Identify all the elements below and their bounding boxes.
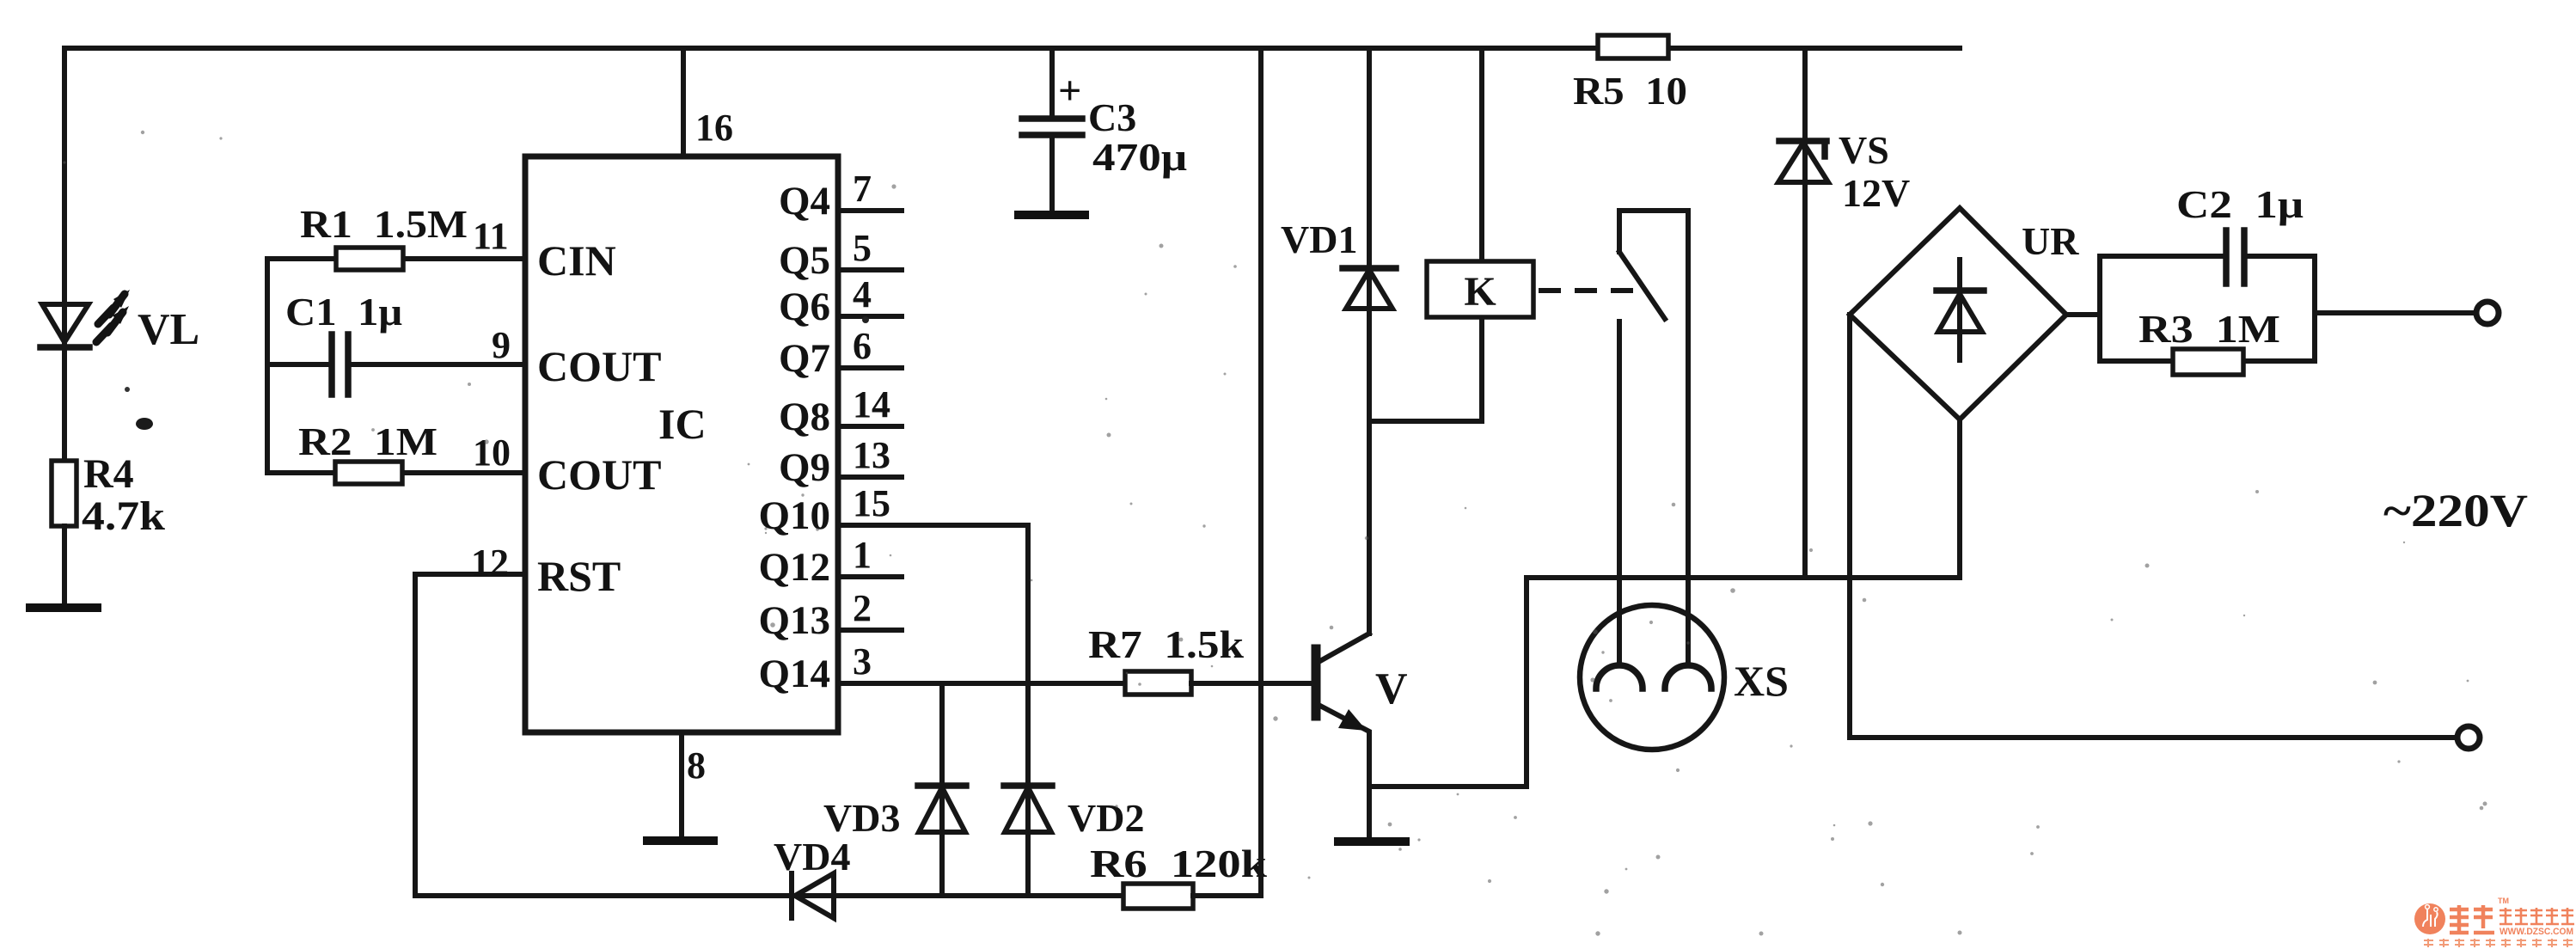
pin name Q9 — [779, 445, 830, 490]
pin 2 stub — [838, 587, 902, 630]
label R3 1M — [2139, 307, 2280, 351]
label R1 1.5M — [300, 202, 468, 246]
transistor V — [1316, 634, 1408, 838]
diode VD2 — [1004, 786, 1052, 832]
ground under transistor — [1338, 837, 1405, 846]
svg-text:VD1: VD1 — [1281, 217, 1357, 261]
label R2 1M — [298, 419, 437, 463]
svg-text:COUT: COUT — [537, 450, 661, 499]
svg-text:Q5: Q5 — [779, 238, 830, 283]
resistor R4 — [52, 461, 76, 526]
label C1 1u — [285, 290, 402, 334]
svg-text:11: 11 — [473, 215, 509, 257]
pin name Q4 — [779, 179, 830, 223]
wire R1 row — [267, 256, 525, 261]
label VS 12V — [1839, 128, 1910, 215]
svg-text:CIN: CIN — [537, 236, 616, 285]
pin 15 number — [853, 482, 890, 524]
svg-text:9: 9 — [492, 324, 511, 366]
label R4 4.7k — [82, 451, 165, 539]
svg-text:12: 12 — [471, 542, 509, 584]
pin number 9 — [492, 324, 511, 366]
diode VD3 — [918, 683, 966, 896]
pin name Q12 — [758, 545, 830, 590]
pin 8 wire — [682, 732, 706, 839]
svg-text:VS: VS — [1839, 128, 1889, 172]
svg-text:C2 1μ: C2 1μ — [2176, 182, 2304, 226]
pin 7 stub — [838, 168, 902, 211]
bridge rectifier UR — [1850, 208, 2066, 419]
wire VD4 to R6 — [795, 893, 1123, 898]
pin 6 stub — [838, 325, 902, 368]
svg-text:+: + — [1058, 68, 1081, 113]
svg-text:6: 6 — [853, 325, 872, 367]
svg-text:R5 10: R5 10 — [1573, 69, 1687, 113]
wire R2 row — [267, 470, 525, 475]
pin name Q6 — [779, 285, 830, 329]
svg-text:WWW.DZSC.COM: WWW.DZSC.COM — [2500, 927, 2573, 937]
wire C1 row — [267, 362, 525, 367]
svg-text:R1 1.5M: R1 1.5M — [300, 202, 468, 246]
svg-text:Q9: Q9 — [779, 445, 830, 490]
svg-text:UR: UR — [2022, 219, 2079, 263]
svg-text:RST: RST — [537, 552, 621, 600]
terminal bottom — [2457, 726, 2480, 749]
resistor R7 — [1125, 671, 1191, 695]
pin name RST — [537, 552, 621, 600]
svg-text:12V: 12V — [1842, 171, 1910, 215]
relay coil K wire — [1369, 48, 1482, 421]
svg-text:Q10: Q10 — [758, 493, 830, 538]
wire Q10 to VD2 — [838, 525, 1028, 896]
label VD4 — [774, 835, 850, 879]
svg-text:7: 7 — [853, 168, 872, 210]
watermark logo — [2414, 897, 2574, 947]
pin name CIN — [537, 236, 616, 285]
pin 4 stub — [838, 273, 902, 316]
LED VL — [40, 304, 89, 461]
wire RC box to terminal — [2315, 310, 2475, 315]
wire R7 to base — [1191, 681, 1313, 686]
label VD1 — [1281, 217, 1357, 261]
resistor R3 — [2173, 349, 2243, 375]
wire left vertical from rail to LED — [62, 48, 67, 304]
label ~220V — [2383, 485, 2528, 536]
wire bridge right to RC box — [2066, 312, 2100, 317]
wire emitter to XS branch — [1369, 578, 1527, 787]
svg-text:10: 10 — [473, 432, 511, 474]
svg-text:8: 8 — [687, 744, 706, 787]
svg-text:VD4: VD4 — [774, 835, 850, 879]
svg-text:470μ: 470μ — [1092, 135, 1187, 179]
wire lower distribution — [1527, 419, 1960, 578]
dashed link K to contact — [1539, 288, 1637, 293]
resistor R6 — [1123, 884, 1193, 909]
diode VD1 with collector line — [1343, 48, 1396, 634]
pin name COUT (10) — [537, 450, 661, 499]
LED light arrows — [96, 290, 130, 342]
svg-text:3: 3 — [853, 640, 872, 683]
svg-text:Q7: Q7 — [779, 336, 830, 381]
svg-text:Q8: Q8 — [779, 395, 830, 439]
ground under pin 8 — [647, 836, 713, 845]
wire R4 to ground — [62, 526, 67, 606]
pin number 10 — [473, 432, 511, 474]
noise — [63, 131, 2487, 936]
zener diode VS — [1778, 48, 1828, 578]
capacitor C2 — [2226, 230, 2244, 284]
svg-text:R4: R4 — [83, 451, 134, 497]
label VL — [138, 305, 199, 354]
svg-text:IC: IC — [658, 400, 707, 448]
relay coil K box — [1427, 261, 1533, 317]
svg-text:Q4: Q4 — [779, 179, 830, 223]
pin 14 stub — [838, 383, 902, 426]
label UR — [2022, 219, 2079, 263]
pin name COUT (9) — [537, 342, 661, 390]
label R7 1.5k — [1088, 622, 1244, 666]
label IC — [658, 400, 707, 448]
svg-text:XS: XS — [1734, 657, 1789, 705]
svg-text:2: 2 — [853, 587, 872, 629]
ground under R4 — [30, 603, 97, 612]
svg-text:5: 5 — [853, 227, 872, 269]
pin 16 wire — [683, 48, 733, 156]
wire R6 to mid vertical — [1193, 893, 1261, 898]
ground under C3 — [1019, 211, 1085, 219]
svg-text:1: 1 — [853, 534, 872, 576]
label VD3 — [823, 796, 900, 840]
svg-text:14: 14 — [853, 383, 890, 426]
svg-text:VD3: VD3 — [823, 796, 900, 840]
svg-text:4: 4 — [853, 273, 872, 315]
svg-text:~220V: ~220V — [2383, 485, 2528, 536]
pin name Q5 — [779, 238, 830, 283]
pin 5 stub — [838, 227, 902, 270]
label XS — [1734, 657, 1789, 705]
svg-text:R2 1M: R2 1M — [298, 419, 437, 463]
resistor R5 — [1598, 35, 1668, 58]
top power rail — [64, 46, 1960, 51]
pin number 11 — [473, 215, 509, 257]
wire Q14 row to R7 — [838, 681, 1125, 686]
capacitor C3 — [1022, 48, 1082, 213]
RC network frame — [2100, 256, 2315, 361]
svg-text:Q13: Q13 — [758, 598, 830, 643]
svg-text:VL: VL — [138, 305, 199, 354]
resistor R2 — [335, 462, 402, 484]
IC box — [525, 156, 838, 732]
label VD2 — [1068, 796, 1144, 840]
label R6 120k — [1090, 842, 1267, 885]
svg-text:Q6: Q6 — [779, 285, 830, 329]
svg-text:K: K — [1464, 269, 1496, 315]
svg-text:13: 13 — [853, 434, 890, 476]
terminal top — [2476, 302, 2499, 324]
socket XS — [1580, 605, 1724, 750]
svg-text:Q12: Q12 — [758, 545, 830, 590]
svg-text:C1 1μ: C1 1μ — [285, 290, 402, 334]
svg-text:V: V — [1375, 664, 1408, 713]
label C2 1u — [2176, 182, 2304, 226]
capacitor C1 — [332, 334, 348, 395]
pin name Q10 — [758, 493, 830, 538]
svg-text:TM: TM — [2498, 897, 2509, 905]
svg-text:16: 16 — [695, 107, 733, 149]
label R5 10 — [1573, 69, 1687, 113]
svg-text:Q14: Q14 — [758, 652, 830, 696]
pin name Q13 — [758, 598, 830, 643]
pin name Q14 — [758, 652, 830, 696]
pin 13 stub — [838, 434, 902, 477]
svg-text:COUT: COUT — [537, 342, 661, 390]
svg-text:VD2: VD2 — [1068, 796, 1144, 840]
svg-text:R3 1M: R3 1M — [2139, 307, 2280, 351]
svg-text:4.7k: 4.7k — [82, 493, 165, 539]
pin name Q8 — [779, 395, 830, 439]
svg-text:15: 15 — [853, 482, 890, 524]
svg-text:C3: C3 — [1088, 95, 1136, 139]
svg-text:R7 1.5k: R7 1.5k — [1088, 622, 1244, 666]
pin 1 stub — [838, 534, 902, 577]
long middle vertical wire — [1258, 48, 1264, 896]
pin name Q7 — [779, 336, 830, 381]
pin 3 number — [853, 640, 872, 683]
resistor R1 — [336, 248, 403, 270]
label C3 470u — [1058, 68, 1187, 179]
pin 12 RST wire loop — [415, 542, 792, 896]
wire bridge left leg down to terminal — [1850, 315, 2457, 738]
svg-text:R6 120k: R6 120k — [1090, 842, 1267, 885]
relay contact switch — [1619, 211, 1688, 665]
diode VD4 — [792, 873, 834, 918]
node loop left vertical — [265, 259, 270, 473]
